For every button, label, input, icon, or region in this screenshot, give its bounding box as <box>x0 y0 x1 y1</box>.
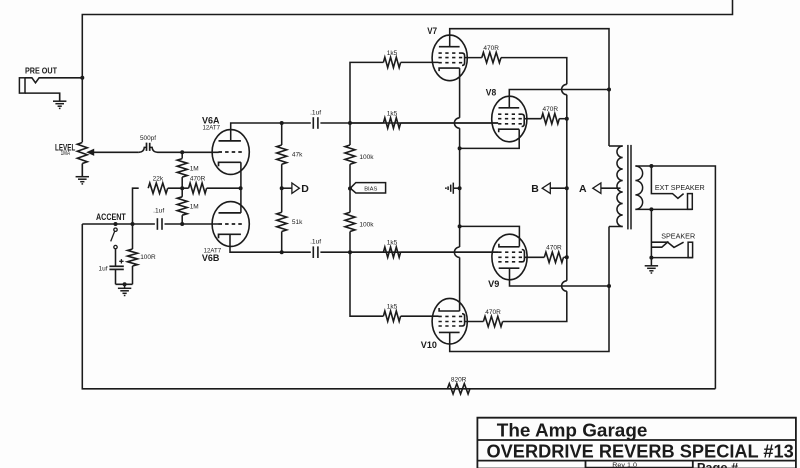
svg-text:Rev 1.0: Rev 1.0 <box>612 462 637 468</box>
svg-text:EXT SPEAKER: EXT SPEAKER <box>655 183 705 192</box>
svg-text:470R: 470R <box>485 309 501 316</box>
svg-text:12AT7: 12AT7 <box>203 125 221 132</box>
svg-text:V9: V9 <box>488 279 499 289</box>
svg-text:.1uf: .1uf <box>310 239 321 246</box>
svg-text:1M: 1M <box>190 204 199 211</box>
svg-text:47k: 47k <box>292 152 303 159</box>
svg-text:1M: 1M <box>190 165 199 172</box>
svg-text:Page #: Page # <box>697 461 738 468</box>
svg-text:SPEAKER: SPEAKER <box>661 231 695 240</box>
svg-text:V10: V10 <box>421 340 437 350</box>
svg-text:1MA: 1MA <box>61 150 71 157</box>
svg-text:500pf: 500pf <box>140 135 156 142</box>
svg-text:100k: 100k <box>359 154 374 161</box>
svg-text:BIAS: BIAS <box>364 186 377 192</box>
svg-text:OVERDRIVE REVERB SPECIAL #13: OVERDRIVE REVERB SPECIAL #13 <box>487 442 794 462</box>
svg-text:1k5: 1k5 <box>387 110 398 117</box>
svg-text:A: A <box>579 183 587 195</box>
svg-text:470R: 470R <box>483 45 499 52</box>
svg-text:The Amp Garage: The Amp Garage <box>497 420 648 440</box>
svg-text:V6B: V6B <box>202 253 220 263</box>
svg-text:V8: V8 <box>486 88 496 98</box>
svg-text:470R: 470R <box>546 245 562 252</box>
svg-text:1k5: 1k5 <box>387 50 398 57</box>
svg-text:470R: 470R <box>543 106 559 113</box>
svg-text:.1uf: .1uf <box>153 208 164 215</box>
svg-text:B: B <box>531 183 539 195</box>
svg-text:100k: 100k <box>359 222 374 229</box>
svg-text:51k: 51k <box>292 219 303 226</box>
svg-text:820R: 820R <box>451 376 467 383</box>
svg-text:1k5: 1k5 <box>387 304 398 311</box>
svg-text:1uf: 1uf <box>99 265 108 272</box>
svg-text:.1uf: .1uf <box>310 109 321 116</box>
svg-text:PRE OUT: PRE OUT <box>25 66 58 76</box>
svg-text:100R: 100R <box>140 254 156 261</box>
svg-text:V7: V7 <box>427 26 437 36</box>
svg-text:ACCENT: ACCENT <box>96 212 126 222</box>
svg-text:22k: 22k <box>153 176 164 183</box>
svg-text:470R: 470R <box>190 176 206 183</box>
svg-text:1k5: 1k5 <box>387 240 398 247</box>
svg-text:D: D <box>301 183 309 195</box>
